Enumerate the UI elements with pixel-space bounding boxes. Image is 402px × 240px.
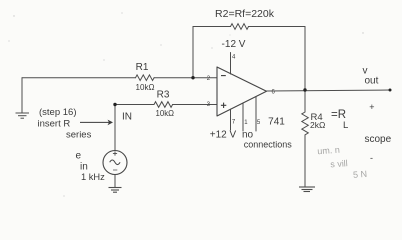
junction node at feedback/inverting input <box>191 76 194 79</box>
svg-text:insert R: insert R <box>38 118 71 129</box>
svg-text:scope: scope <box>365 134 392 145</box>
annotation arrow to IN <box>80 120 113 126</box>
ground (left, step 16) <box>16 113 30 118</box>
resistor R2 <box>231 24 249 30</box>
wire: op-amp pin7 vertical <box>230 109 232 130</box>
junction node IN <box>113 103 116 106</box>
resistor R4 <box>302 112 309 135</box>
svg-text:(step 16): (step 16) <box>39 107 77 118</box>
svg-text:2kΩ: 2kΩ <box>310 120 325 130</box>
terminal dot v out <box>389 89 392 92</box>
svg-text:R3: R3 <box>157 90 170 101</box>
svg-text:L: L <box>343 120 348 131</box>
svg-text:1 kHz: 1 kHz <box>81 172 105 182</box>
wire: R4 bottom segment to ground <box>304 135 306 187</box>
wire: IN node down to source <box>114 105 116 151</box>
svg-text:R2=Rf=220k: R2=Rf=220k <box>215 8 275 20</box>
svg-text:connections: connections <box>244 140 293 150</box>
svg-text:+: + <box>369 102 374 112</box>
wire: feedback right vertical <box>304 27 306 91</box>
svg-text:um. n: um. n <box>317 145 340 157</box>
wire: minus-input horizontal right segment <box>154 77 217 79</box>
svg-text:10kΩ: 10kΩ <box>136 82 155 92</box>
svg-text:in: in <box>80 162 88 173</box>
svg-text:+12 V: +12 V <box>210 130 237 141</box>
wire: minus-input horizontal left segment <box>22 77 136 79</box>
svg-text:e: e <box>76 151 82 162</box>
wire: source bottom to ground <box>114 175 116 188</box>
svg-text:5 N: 5 N <box>353 169 368 180</box>
svg-text:series: series <box>66 130 92 141</box>
source sine squiggle <box>110 160 120 165</box>
resistor R1 <box>136 75 155 81</box>
wire: op-amp pin1 vertical <box>242 103 244 131</box>
svg-text:s vill: s vill <box>330 158 348 169</box>
wire: feedback top right segment <box>249 26 306 28</box>
wire: feedback top left segment <box>193 26 231 28</box>
wire: op-amp pin4 vertical <box>230 53 232 75</box>
wire: plus-input horizontal right segment <box>173 104 218 106</box>
wire: left vertical to ground <box>21 78 23 113</box>
wire: R4 top segment <box>304 90 306 112</box>
wire: output horizontal <box>267 90 391 91</box>
op-amp U1 741 triangle <box>217 67 267 116</box>
svg-text:10kΩ: 10kΩ <box>156 108 175 118</box>
op-amp minus input symbol <box>221 75 226 77</box>
svg-text:out: out <box>365 75 379 86</box>
source + polarity mark <box>113 151 117 155</box>
svg-text:-12 V: -12 V <box>222 39 246 50</box>
ground (under R4) <box>299 187 315 192</box>
ground (under source) <box>109 188 122 193</box>
svg-text:-: - <box>370 153 373 163</box>
op-amp plus input symbol <box>221 103 226 108</box>
source - polarity mark <box>113 169 117 171</box>
wire: op-amp pin5 vertical <box>255 97 257 132</box>
scan speckles (decorative) <box>8 12 363 196</box>
wire: plus-input horizontal left segment <box>115 104 154 106</box>
wire: feedback left vertical <box>192 27 194 78</box>
svg-text:IN: IN <box>122 112 132 123</box>
source e (sine generator) <box>103 151 127 175</box>
svg-text:R1: R1 <box>136 62 149 73</box>
resistor R3 <box>154 102 173 108</box>
svg-text:741: 741 <box>268 117 285 128</box>
junction node at output/feedback/R4 <box>303 88 306 91</box>
faint bleed-through ghosting bottom right <box>317 143 367 182</box>
